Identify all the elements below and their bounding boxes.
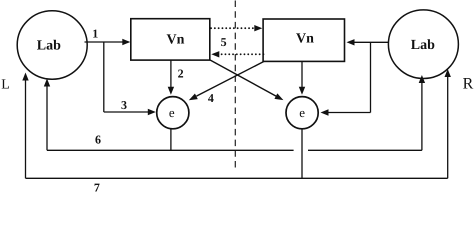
block Lab right [388, 10, 458, 79]
svg-text:L: L [1, 78, 10, 93]
svg-text:5: 5 [221, 35, 227, 49]
wire bus 7 horizontal [26, 177, 448, 179]
svg-text:4: 4 [208, 91, 214, 105]
svg-text:Vn: Vn [167, 33, 185, 48]
svg-text:e: e [169, 105, 175, 120]
svg-text:2: 2 [178, 67, 184, 81]
block Vn left [131, 19, 210, 60]
wire branch left (down from wire 1) [103, 42, 105, 112]
wire bus 6 horizontal [47, 149, 422, 151]
svg-text:R: R [463, 76, 474, 93]
wire bus 7 left rise to Lab-L [22, 73, 28, 179]
node e left [157, 97, 189, 129]
midline (hemisphere divider, dashed) [234, 1, 236, 169]
wire 5 dotted return (Vn-R to Vn-L) [211, 51, 263, 57]
svg-text:1: 1 [92, 27, 98, 41]
wire 5 dotted (Vn-L to Vn-R) [211, 25, 262, 31]
wire diagonal Vn-L to e-R [210, 60, 283, 100]
wire Lab-R to Vn-R [347, 39, 389, 45]
svg-text:3: 3 [121, 98, 127, 112]
svg-text:Lab: Lab [37, 38, 61, 53]
wire 4 diagonal Vn-R to e-L [189, 61, 264, 100]
wire 2 left (Vn-L down to e-L) [168, 60, 174, 95]
wire 1 (Lab-L to Vn-L) [85, 39, 131, 45]
svg-text:e: e [299, 105, 305, 120]
block Lab left [17, 11, 87, 79]
wire bus 6 left rise to Lab-L [44, 79, 50, 151]
wire bus 6 right rise to Lab-R [419, 75, 425, 150]
wire bus 7 right rise to Lab-R [445, 69, 451, 178]
wire branch right to e-R [321, 109, 371, 115]
wire 3 (branch to e-L) [104, 109, 156, 115]
svg-text:Lab: Lab [411, 38, 435, 53]
svg-text:Vn: Vn [296, 32, 314, 47]
block Vn right [263, 19, 344, 61]
node e right [286, 97, 318, 129]
svg-text:7: 7 [94, 181, 100, 194]
wire 2 right (Vn-R down to e-R) [299, 61, 305, 94]
wire e-R down to bus 7 [301, 129, 303, 179]
wire e-L down to bus 6 [170, 129, 172, 151]
wire branch right (down from Lab-R wire) [370, 42, 372, 112]
svg-text:6: 6 [95, 133, 101, 147]
